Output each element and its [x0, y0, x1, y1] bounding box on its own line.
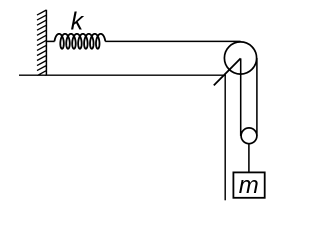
big pulley: [224, 42, 256, 74]
hanger line: [248, 144, 250, 172]
mass box: [233, 172, 264, 197]
string: right side down: [256, 58, 258, 136]
svg-text:m: m: [239, 172, 259, 199]
string: middle to axle: [240, 58, 242, 135]
spring left lead: [46, 40, 54, 42]
string: spring to pulley: [105, 40, 240, 42]
wall hatching: [37, 10, 46, 81]
spring coil: [55, 34, 106, 49]
table leg: [224, 75, 226, 200]
svg-text:k: k: [71, 8, 85, 36]
small pulley: [241, 128, 257, 144]
wall line: [45, 10, 47, 75]
ground line: [19, 74, 226, 76]
pulley bracket diagonal: [214, 58, 241, 85]
